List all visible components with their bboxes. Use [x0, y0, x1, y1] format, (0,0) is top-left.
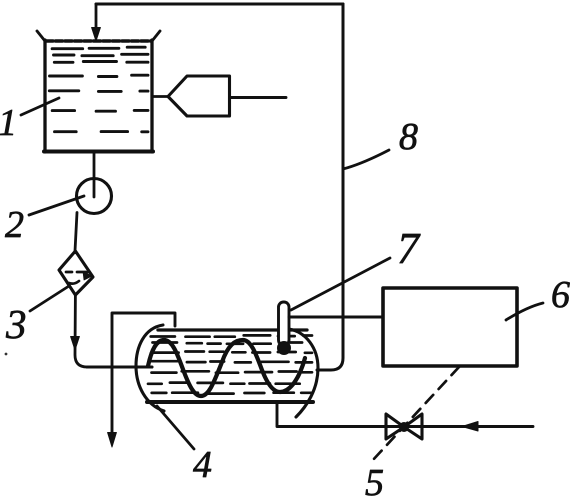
tank 1: liquid surface (dense dashed rim) — [46, 39, 151, 42]
thermometer 7: stem — [279, 302, 290, 345]
svg-text:5: 5 — [365, 462, 384, 498]
pump 2 (circle) — [77, 179, 112, 214]
wire: tank bottom to pump — [93, 152, 96, 179]
svg-text:3: 3 — [5, 301, 27, 347]
valve 5 (bowtie) — [386, 414, 422, 439]
filter 3 (diamond) — [59, 251, 93, 295]
leader line 1 — [21, 98, 59, 115]
svg-text:1: 1 — [0, 102, 17, 144]
heat exchanger 4: left end cap — [136, 325, 164, 411]
tank 1: right wall — [150, 40, 153, 152]
flow arrowhead on water line — [462, 422, 478, 432]
cooling water line — [277, 403, 533, 427]
arrowhead into tank — [92, 28, 101, 42]
tank 1: liquid dashes — [49, 47, 148, 132]
drain line (inverted U with down arrow) — [112, 313, 175, 434]
heat exchanger 4: shell bottom — [147, 400, 313, 404]
svg-text:2: 2 — [5, 204, 24, 246]
heat exchanger 4: right end cap — [289, 329, 318, 417]
leader line 6 — [506, 303, 543, 320]
wire: top return header — [96, 3, 343, 6]
heat exchanger 4: coil — [148, 340, 305, 396]
wire: pump to filter — [75, 213, 77, 252]
leader line 2 — [29, 196, 84, 215]
leader line 8 — [343, 150, 389, 169]
pipe 8 (return line down right side) — [317, 4, 343, 370]
arrowhead (flow down after filter) — [71, 337, 80, 351]
wire: tank to nozzle — [152, 95, 168, 98]
filter 3: inner arrowhead — [83, 272, 92, 281]
svg-text:7: 7 — [397, 224, 421, 273]
svg-text:8: 8 — [399, 116, 418, 158]
valve 5: center plug — [399, 422, 409, 432]
leader line 4 — [157, 406, 194, 449]
tank 1: left wall — [43, 40, 46, 152]
svg-text:6: 6 — [551, 274, 570, 316]
svg-text:4: 4 — [193, 444, 212, 486]
wire: nozzle outlet — [230, 96, 287, 99]
leader line 7 — [291, 258, 390, 310]
tank 1: left rim flare — [37, 31, 45, 41]
filter 3: inner marks — [66, 272, 88, 284]
heat exchanger 4: liquid dashes — [148, 335, 312, 393]
tank 1: bottom — [44, 150, 153, 154]
pump 2: inner stem — [93, 179, 96, 197]
nozzle / ejector body — [168, 76, 230, 116]
tank 1: right rim flare — [152, 31, 160, 41]
thermometer 7: bulb — [278, 342, 291, 355]
wire: thermometer to regulator 6 — [289, 316, 383, 319]
wire: inlet drop into tank — [95, 4, 98, 29]
heat exchanger 4: shell top — [158, 328, 307, 331]
regulator 6 (box) — [383, 288, 517, 366]
speck — [5, 353, 8, 356]
leader line 3 — [30, 286, 69, 311]
control link (dashed) from regulator to valve 5 — [372, 367, 459, 461]
drain arrowhead — [108, 433, 117, 448]
wire: filter down to lower corner — [75, 295, 87, 367]
pipe: feed into exchanger coil — [87, 365, 152, 368]
